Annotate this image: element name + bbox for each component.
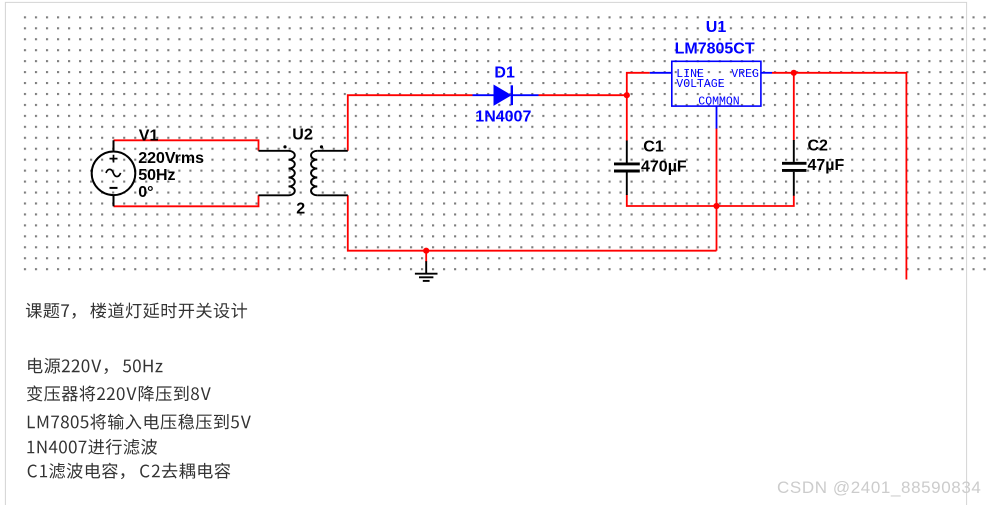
label D1 1N4007 [475, 64, 531, 125]
node C junction VREG/C2/output [791, 70, 797, 76]
capacitor C1 470uF [614, 141, 640, 196]
svg-text:VREG: VREG [731, 68, 759, 81]
wire node A down to C1 [626, 95, 628, 141]
svg-text:CSDN @2401_88590834: CSDN @2401_88590834 [777, 478, 981, 497]
svg-text:D1: D1 [494, 64, 515, 81]
wire ground stub [425, 251, 427, 262]
svg-text:U1: U1 [706, 19, 727, 36]
wire V1 top rail [114, 140, 259, 151]
svg-text:220Vrms: 220Vrms [138, 150, 204, 167]
label C2 47uF [808, 138, 845, 175]
transformer U2 [259, 151, 348, 196]
node D junction ground rail [423, 248, 429, 254]
note text line 2: 电源220V，50Hz [28, 358, 162, 374]
svg-text:VOLTAGE: VOLTAGE [676, 78, 724, 91]
wire D1 cathode to node A [539, 94, 627, 96]
label U1 LM7805CT [675, 19, 755, 58]
wire C2 bottom to node B [717, 196, 794, 207]
note text line 3: 变压器将220V降压到8V [27, 385, 211, 401]
svg-text:2: 2 [296, 201, 305, 218]
label V1 220Vrms 50Hz 0deg [138, 128, 204, 201]
pin names LINE VOLTAGE, VREG, COMMON [676, 68, 759, 108]
wire U1 VREG pin to output [772, 73, 906, 280]
diode D1 [473, 85, 539, 105]
wire V1 bottom rail [114, 195, 259, 206]
wire U1 COMMON down through node B to ground rail [716, 128, 718, 251]
ac source V1 [92, 140, 136, 206]
label U2 turns 2 [292, 127, 313, 218]
svg-text:V1: V1 [139, 128, 159, 145]
svg-text:U2: U2 [292, 127, 313, 144]
note text line 1: 课题7，楼道灯延时开关设计 [26, 303, 247, 319]
svg-text:50Hz: 50Hz [138, 167, 175, 184]
svg-text:0°: 0° [138, 184, 153, 201]
svg-text:47µF: 47µF [808, 157, 845, 174]
capacitor C2 47uF [782, 140, 807, 196]
wire ground rail [348, 195, 717, 250]
wire secondary top to D1 anode [348, 95, 473, 151]
svg-text:470µF: 470µF [641, 158, 687, 175]
voltage regulator U1 LM7805CT [650, 61, 772, 128]
svg-text:LM7805CT: LM7805CT [675, 41, 755, 58]
node A junction D1/C1/U1 [624, 92, 630, 98]
svg-text:1N4007: 1N4007 [475, 109, 531, 126]
wire node A up to U1 LINE pin [627, 73, 650, 95]
svg-text:C1: C1 [643, 139, 664, 156]
note text line 6: C1滤波电容，C2去耦电容 [28, 463, 231, 479]
note text line 4: LM7805将输入电压稳压到5V [28, 414, 251, 430]
label C1 470uF [641, 139, 687, 176]
svg-text:C2: C2 [808, 138, 829, 155]
svg-text:COMMON: COMMON [698, 96, 739, 109]
wire node C down to C2 [793, 73, 795, 141]
note text line 5: 1N4007进行滤波 [27, 439, 157, 455]
node B junction C1/C2/COMMON rail [713, 203, 719, 209]
ground [415, 261, 438, 281]
wire C1 bottom to node B [627, 195, 717, 207]
